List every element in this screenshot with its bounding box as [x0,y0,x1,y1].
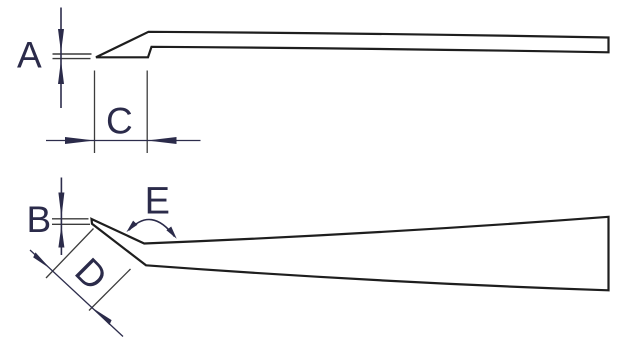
dim B lower arrow [58,226,64,248]
dim A upper arrow [58,29,64,53]
dim D lower arrow [94,309,112,325]
dim E right arrowhead [166,227,176,239]
svg-text:B: B [27,199,52,240]
svg-text:C: C [106,101,133,142]
svg-text:A: A [17,35,42,76]
dim B upper arrow [58,193,64,218]
dim D upper arrow [33,252,50,269]
dim A vertical line [60,8,62,109]
dim D extension line near tip [46,229,94,279]
tweezer arm top view outline [96,32,609,58]
dim A upper tick [53,53,92,55]
dim D line [30,250,123,337]
dim C line [46,140,201,142]
dim B vertical line [60,178,62,256]
dim C left extension line [94,71,96,154]
dim C left arrow [65,137,95,144]
dim A lower arrow [58,60,64,84]
svg-text:E: E [145,181,170,223]
dim B upper tick [52,218,89,220]
tweezer arm bottom view outline [92,217,609,290]
dim C right arrow [147,137,176,144]
dim D extension line near bend [89,269,131,311]
dim B lower tick [52,223,90,225]
dim C right extension line [146,71,148,154]
dim E arc [129,219,175,236]
dim E left arrowhead [126,221,137,233]
dim A lower tick [53,58,91,60]
